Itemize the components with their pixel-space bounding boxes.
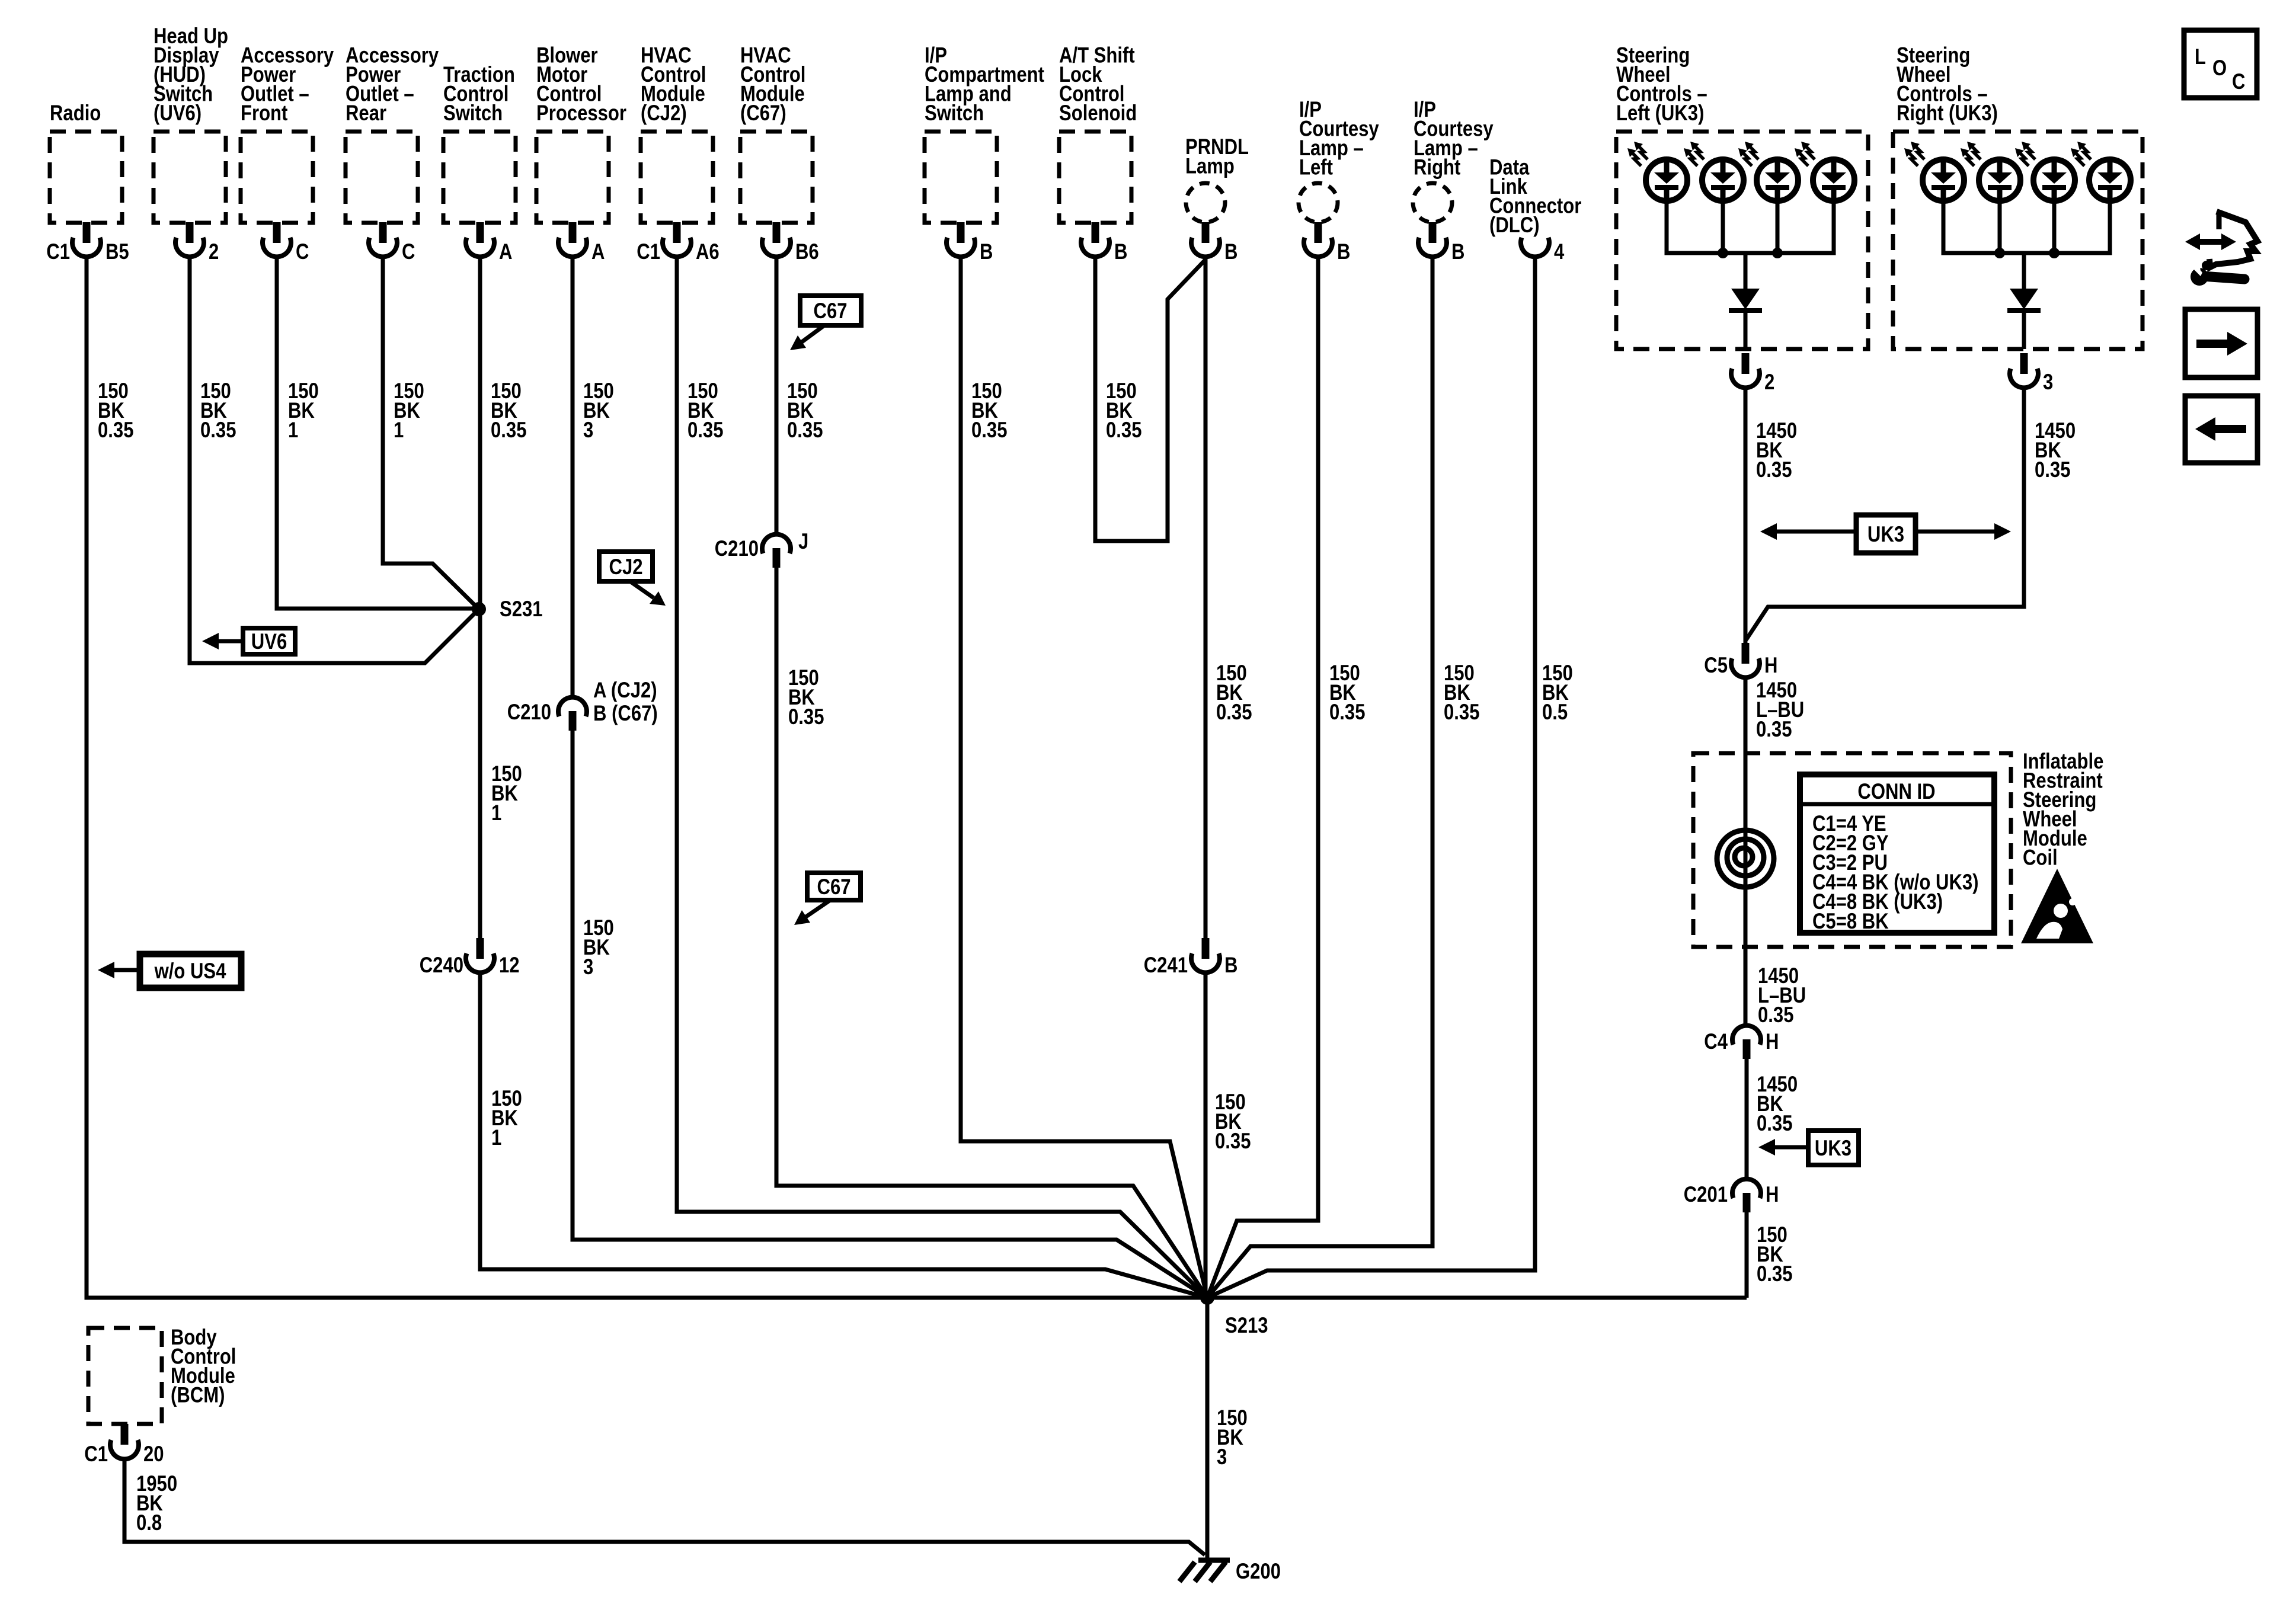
icon LOC box bbox=[2184, 30, 2257, 98]
component box Accessory Power Outlet Front bbox=[241, 132, 313, 223]
svg-text:B: B bbox=[1114, 240, 1127, 264]
wire DLC 4 to S213 bbox=[1207, 257, 1535, 1298]
wire pin 2 to C5 bbox=[1744, 388, 1748, 643]
svg-text:1: 1 bbox=[491, 801, 501, 825]
LED array left bbox=[1627, 142, 1687, 201]
connector C240 pin 12 bbox=[466, 938, 494, 972]
tag C67 upper bbox=[800, 296, 861, 325]
svg-text:C201: C201 bbox=[1684, 1183, 1728, 1207]
component box Traction Control Switch bbox=[443, 132, 516, 223]
svg-text:0.35: 0.35 bbox=[200, 418, 236, 443]
wire BCM C1 to G200 bbox=[124, 1459, 1205, 1555]
svg-text:0.5: 0.5 bbox=[1542, 700, 1568, 725]
svg-text:B5: B5 bbox=[105, 240, 129, 264]
svg-text:0.35: 0.35 bbox=[1756, 458, 1792, 482]
connector C4 pin H bbox=[1732, 1026, 1761, 1059]
svg-text:C210: C210 bbox=[507, 700, 551, 725]
svg-text:2: 2 bbox=[209, 240, 219, 264]
component box Blower Motor Control Processor bbox=[536, 132, 609, 223]
svg-text:C: C bbox=[2232, 70, 2245, 94]
svg-text:3: 3 bbox=[1217, 1445, 1227, 1470]
svg-text:B6: B6 bbox=[795, 240, 819, 264]
connector pin 4 (DLC) bbox=[1521, 238, 1549, 257]
lamp I/P Courtesy Left bbox=[1299, 183, 1338, 222]
svg-text:0.35: 0.35 bbox=[971, 418, 1007, 443]
wire bus to diode (left) bbox=[1744, 253, 1748, 289]
svg-text:0.35: 0.35 bbox=[787, 418, 823, 443]
connector C5 pin H bbox=[1731, 643, 1760, 677]
wire C210 J to S213 bbox=[776, 568, 1207, 1298]
connector C210 pins A (CJ2) / B (C67) on blower wire bbox=[558, 697, 587, 731]
component box HUD Switch bbox=[154, 132, 226, 223]
svg-text:S213: S213 bbox=[1225, 1314, 1268, 1338]
wire PRNDL B to C241 bbox=[1204, 257, 1208, 938]
svg-text:0.35: 0.35 bbox=[1329, 700, 1365, 725]
svg-text:0.35: 0.35 bbox=[98, 418, 133, 443]
table CONN ID bbox=[1800, 774, 1994, 933]
svg-text:20: 20 bbox=[143, 1442, 164, 1467]
lamp I/P Courtesy Right bbox=[1413, 183, 1452, 222]
svg-text:0.35: 0.35 bbox=[1757, 1262, 1792, 1286]
warning triangle SRS bbox=[2021, 869, 2093, 943]
svg-text:B: B bbox=[1224, 240, 1237, 264]
svg-text:C240: C240 bbox=[420, 953, 463, 978]
icon arrow left bbox=[2185, 396, 2257, 463]
svg-text:J: J bbox=[798, 530, 808, 554]
coil SDM spiral bbox=[1717, 830, 1774, 887]
wire I/P Comp B to S213 bbox=[961, 257, 1207, 1298]
connector pin A (Traction Control Switch) bbox=[466, 222, 494, 257]
svg-text:Processor: Processor bbox=[536, 101, 626, 126]
connector C210 pin J on C67 wire bbox=[762, 534, 791, 568]
connector C1 pin 20 (BCM) bbox=[121, 1424, 129, 1445]
component box Accessory Power Outlet Rear bbox=[346, 132, 418, 223]
svg-text:0.8: 0.8 bbox=[136, 1511, 162, 1535]
wire C241 B to S213 bbox=[1204, 972, 1208, 1298]
svg-text:A (CJ2): A (CJ2) bbox=[593, 678, 657, 703]
LED array right bbox=[1904, 142, 1964, 201]
svg-text:C5: C5 bbox=[1704, 654, 1728, 678]
svg-text:0.35: 0.35 bbox=[687, 418, 723, 443]
tag UV6 bbox=[243, 628, 295, 654]
svg-text:C5=8 BK: C5=8 BK bbox=[1812, 910, 1889, 934]
svg-text:Rear: Rear bbox=[346, 101, 386, 126]
svg-text:B: B bbox=[980, 240, 993, 264]
wire Blower A to C210 bbox=[571, 257, 575, 697]
svg-text:0.35: 0.35 bbox=[1444, 700, 1479, 725]
icon service (double arrow, panel, wrench) bbox=[2196, 239, 2225, 245]
wire HVAC C67 B6 to C210 J bbox=[775, 257, 779, 534]
svg-text:C4: C4 bbox=[1704, 1030, 1728, 1054]
svg-text:0.35: 0.35 bbox=[1106, 418, 1141, 443]
connector pin B (Courtesy Left) bbox=[1304, 222, 1332, 257]
wire S213 to G200 bbox=[1205, 1298, 1210, 1559]
svg-text:Switch: Switch bbox=[443, 101, 503, 126]
connector pin 3 (Steering Right) bbox=[2010, 353, 2038, 388]
ground G200 bbox=[1198, 1558, 1230, 1563]
svg-text:0.35: 0.35 bbox=[1757, 1112, 1792, 1136]
connector pin 2 (Steering Left) bbox=[1731, 353, 1760, 388]
svg-text:H: H bbox=[1764, 654, 1777, 678]
svg-text:B: B bbox=[1337, 240, 1350, 264]
connector pin B6 (HVAC Control Module C67) bbox=[762, 222, 791, 257]
wires LED cathodes to bus (left) bbox=[1667, 200, 1834, 253]
connector pin B (PRNDL) bbox=[1191, 222, 1220, 257]
icon arrow right bbox=[2185, 309, 2257, 377]
connector pin B5 (Radio) bbox=[72, 222, 101, 257]
tag CJ2 bbox=[599, 552, 653, 581]
wire C201 H down to ground bus bbox=[1745, 1212, 1749, 1298]
connector pin B (AT Shift Lock Control Solenoid) bbox=[1081, 222, 1109, 257]
svg-text:Left (UK3): Left (UK3) bbox=[1616, 101, 1704, 126]
connector pin C (Accessory Power Outlet Front) bbox=[263, 222, 291, 257]
svg-text:2: 2 bbox=[1764, 370, 1774, 395]
wire HUD 2 to S231 bbox=[190, 257, 479, 663]
svg-text:Radio: Radio bbox=[50, 101, 101, 126]
connector C201 pin H bbox=[1732, 1179, 1761, 1212]
svg-text:w/o US4: w/o US4 bbox=[154, 959, 226, 984]
svg-text:C210: C210 bbox=[715, 537, 759, 561]
component box AT Shift Lock Control Solenoid bbox=[1059, 132, 1131, 223]
svg-text:C67: C67 bbox=[817, 875, 850, 900]
svg-text:1: 1 bbox=[491, 1126, 501, 1150]
svg-text:Switch: Switch bbox=[925, 101, 984, 126]
tag C67 lower bbox=[807, 873, 861, 900]
wire Acc Rear C to S231 bbox=[383, 257, 479, 609]
connector pin A6 (HVAC Control Module CJ2) bbox=[663, 222, 691, 257]
svg-text:3: 3 bbox=[2043, 370, 2053, 395]
svg-text:Left: Left bbox=[1299, 155, 1333, 180]
lamp PRNDL bbox=[1186, 183, 1225, 222]
svg-text:C67: C67 bbox=[813, 299, 847, 324]
svg-text:12: 12 bbox=[499, 953, 520, 978]
component box HVAC Control Module CJ2 bbox=[641, 132, 713, 223]
junction dots LED bus left bbox=[1718, 248, 1728, 258]
component box HVAC Control Module C67 bbox=[740, 132, 813, 223]
wire A/T Shift B loop to PRNDL B bbox=[1095, 257, 1205, 541]
svg-text:(BCM): (BCM) bbox=[171, 1383, 225, 1407]
diode (right box) bbox=[2010, 289, 2038, 309]
svg-text:C: C bbox=[296, 240, 309, 264]
svg-text:0.35: 0.35 bbox=[2035, 458, 2070, 482]
wire C4 to C201 bbox=[1745, 1059, 1749, 1179]
svg-text:A: A bbox=[499, 240, 512, 264]
connector pin 2 (HUD Switch) bbox=[175, 222, 204, 257]
svg-text:Front: Front bbox=[241, 101, 287, 126]
wire HVAC CJ2 A6 to S213 bbox=[677, 257, 1207, 1298]
tag w/o US4 bbox=[140, 954, 241, 988]
svg-text:CJ2: CJ2 bbox=[609, 555, 642, 580]
svg-text:UK3: UK3 bbox=[1815, 1137, 1851, 1161]
svg-text:(DLC): (DLC) bbox=[1489, 213, 1540, 238]
svg-text:Coil: Coil bbox=[2023, 846, 2058, 870]
svg-text:C: C bbox=[402, 240, 415, 264]
splice S213 bbox=[1200, 1291, 1214, 1305]
svg-text:(CJ2): (CJ2) bbox=[641, 101, 687, 126]
splice S231 bbox=[472, 602, 486, 616]
svg-text:Solenoid: Solenoid bbox=[1059, 101, 1137, 126]
svg-text:1: 1 bbox=[394, 418, 404, 443]
connector pin B (Courtesy Right) bbox=[1418, 222, 1447, 257]
wire pin 3 joining left wire above C5 bbox=[1746, 388, 2024, 640]
svg-text:UK3: UK3 bbox=[1868, 523, 1904, 547]
connector pin C (Accessory Power Outlet Rear) bbox=[369, 222, 397, 257]
wire Radio B5 to S213 and on to C201 (ground bus) bbox=[87, 257, 1747, 1298]
svg-text:3: 3 bbox=[583, 955, 593, 980]
component box Body Control Module (BCM) bbox=[88, 1328, 162, 1424]
svg-text:Right (UK3): Right (UK3) bbox=[1897, 101, 1998, 126]
wire C240 to S213 bbox=[480, 972, 1207, 1298]
svg-text:L: L bbox=[2195, 45, 2206, 69]
svg-text:Right: Right bbox=[1414, 155, 1460, 180]
svg-text:B (C67): B (C67) bbox=[593, 702, 658, 726]
svg-text:C1: C1 bbox=[46, 240, 70, 264]
svg-text:A: A bbox=[591, 240, 605, 264]
component box IP Compartment Lamp and Switch bbox=[925, 132, 997, 223]
wire Acc Front C to S231 bbox=[277, 257, 479, 609]
svg-text:A6: A6 bbox=[696, 240, 720, 264]
connector C241 pin B bbox=[1191, 938, 1220, 972]
svg-text:H: H bbox=[1766, 1183, 1779, 1207]
component box Steering Wheel Controls Right (UK3) bbox=[1893, 132, 2142, 349]
svg-text:UV6: UV6 bbox=[251, 630, 287, 654]
svg-text:B: B bbox=[1451, 240, 1464, 264]
component box Steering Wheel Controls Left (UK3) bbox=[1616, 132, 1868, 349]
component box Radio bbox=[50, 132, 122, 223]
tag UK3 lower bbox=[1808, 1131, 1859, 1165]
svg-text:O: O bbox=[2212, 56, 2227, 81]
svg-text:(UV6): (UV6) bbox=[154, 101, 202, 126]
diode (left box) bbox=[1731, 289, 1760, 309]
junction dots LED bus right bbox=[1994, 248, 2005, 258]
svg-text:0.35: 0.35 bbox=[1756, 718, 1792, 742]
wires LED cathodes to bus (right) bbox=[1943, 200, 2110, 253]
wire Courtesy Right B to S213 bbox=[1207, 257, 1432, 1298]
connector pin B (IP Compartment Lamp and Switch) bbox=[946, 222, 975, 257]
wire C210 B to S213 bbox=[573, 731, 1207, 1298]
svg-text:B: B bbox=[1224, 953, 1237, 978]
svg-text:0.35: 0.35 bbox=[788, 705, 824, 729]
svg-text:Lamp: Lamp bbox=[1185, 154, 1235, 178]
wire C5 through coil to C4 bbox=[1744, 677, 1748, 1026]
svg-text:G200: G200 bbox=[1236, 1560, 1281, 1584]
svg-text:C241: C241 bbox=[1144, 953, 1188, 978]
svg-text:3: 3 bbox=[583, 418, 593, 443]
wire Courtesy Left B to S213 bbox=[1207, 257, 1318, 1298]
svg-text:(C67): (C67) bbox=[740, 101, 786, 126]
svg-text:C1: C1 bbox=[84, 1442, 108, 1467]
connector pin A (Blower Motor Control Processor) bbox=[558, 222, 587, 257]
svg-text:0.35: 0.35 bbox=[1758, 1003, 1793, 1028]
svg-text:0.35: 0.35 bbox=[491, 418, 526, 443]
tag UK3 with double arrow bbox=[1774, 530, 1997, 534]
svg-text:S231: S231 bbox=[500, 597, 543, 622]
svg-text:CONN ID: CONN ID bbox=[1857, 780, 1935, 804]
wire Traction A through S231 to C240 bbox=[478, 257, 482, 938]
component box Inflatable Restraint Steering Wheel Module Coil bbox=[1693, 753, 2011, 947]
wire bus to diode (right) bbox=[2022, 253, 2026, 289]
svg-text:C1: C1 bbox=[637, 240, 660, 264]
svg-text:1: 1 bbox=[288, 418, 298, 443]
svg-text:4: 4 bbox=[1554, 240, 1564, 264]
svg-text:H: H bbox=[1766, 1030, 1779, 1054]
svg-text:0.35: 0.35 bbox=[1216, 700, 1252, 725]
svg-text:0.35: 0.35 bbox=[1215, 1129, 1251, 1154]
